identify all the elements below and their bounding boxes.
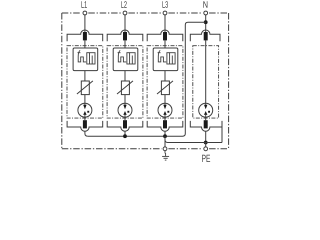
terminal label N — [203, 1, 207, 7]
spark-gap element (path L3): side dot — [167, 111, 169, 113]
terminal label L3 — [162, 1, 168, 8]
terminal label PE — [202, 155, 210, 162]
wire top contact to N-PE spark gap — [205, 40, 207, 103]
earth terminal circle on enclosure bottom edge — [163, 147, 167, 151]
PE bus wire with elbow from earth wire — [165, 140, 222, 143]
plug-in contact (top) of path L2: bracket with arc and solid contact bar — [107, 30, 143, 41]
spark-gap element (N-PE path): side dot — [208, 111, 210, 113]
wire junction to PE terminal — [205, 143, 207, 147]
earth/ground symbol below earth terminal — [164, 151, 166, 154]
varistor (path L3) diagonal stroke — [157, 81, 173, 94]
wire branch L3 bottom to bus — [164, 131, 166, 136]
wire spark-gap to bottom contact (L3) — [164, 117, 166, 120]
wire branch L1 bottom elbow onto varistor common bus — [85, 131, 88, 136]
junction node bus-L2 — [123, 134, 127, 138]
module dash-dot box around protection path L3 — [147, 46, 183, 118]
varistor (path L2) (rectangle) — [121, 81, 129, 95]
wire from terminal L3 down to top contact — [164, 15, 166, 33]
hatched block of indicator icon of path L1 — [87, 53, 95, 64]
spark-gap element (path L3): lower electrode arrow (pointing up) — [163, 111, 166, 115]
plug-in contact (top) of path N-PE: bracket with arc and solid contact bar — [190, 30, 220, 41]
spark-gap element (path L1): upper electrode arrow (pointing down) — [84, 103, 86, 105]
plug-in contact (top) of path L1: bracket with arc and solid contact bar — [67, 30, 103, 41]
waveform icon inside indicator box of path L2 — [118, 50, 126, 62]
module dash-dot box around N-PE spark gap path — [193, 46, 219, 118]
spark-gap element (N-PE path): circle — [199, 103, 213, 117]
varistor (path L3) (rectangle) — [161, 81, 169, 95]
wire varistor to spark-gap (L3) — [164, 95, 166, 104]
spark-gap element (path L2): circle — [118, 103, 132, 117]
terminal circle N — [204, 11, 208, 15]
module dash-dot box around protection path L2 — [107, 46, 143, 118]
terminal circle L1 — [83, 11, 87, 15]
spark-gap element (N-PE path): lower electrode arrow (pointing up) — [204, 111, 207, 115]
spark-gap element (path L3): circle — [158, 103, 172, 117]
wire indicator box to varistor (L1) — [84, 71, 86, 82]
status indicator / thermal disconnector monitoring box of path L1 — [73, 48, 98, 71]
status indicator / thermal disconnector monitoring box of path L3 — [153, 48, 178, 71]
terminal label L2 — [121, 1, 126, 7]
waveform icon inside indicator box of path L3 — [158, 50, 166, 62]
wire varistor to spark-gap (L1) — [84, 95, 86, 104]
spark-gap element (path L2): lower electrode arrow (pointing up) — [123, 111, 126, 115]
junction node on PE bus below N-PE path — [204, 141, 208, 145]
terminal label L1 — [81, 1, 86, 7]
wire contact to indicator box (L2) — [124, 40, 126, 48]
spark-gap element (path L1): side dot — [87, 111, 89, 113]
wire from bus junction (L3) down to earth terminal — [164, 136, 166, 147]
spark-gap element (path L2): upper electrode arrow (pointing down) — [124, 103, 126, 105]
wire branch L2 bottom to bus — [124, 131, 126, 136]
spark-gap element (path L1): circle — [78, 103, 92, 117]
plug-in contact (bottom) of path L3: bracket with arc and solid contact bar — [147, 121, 183, 131]
wire spark-gap to bottom contact (L1) — [84, 117, 86, 120]
wire indicator box to varistor (L3) — [164, 71, 166, 82]
enclosure boundary top edge — [62, 12, 229, 14]
PE terminal circle on enclosure bottom edge — [204, 147, 208, 151]
terminal circle L3 — [163, 11, 167, 15]
varistor (path L1) diagonal stroke — [77, 81, 93, 94]
enclosure boundary right edge — [228, 13, 230, 149]
plug-in contact (bottom) of path L1: bracket with arc and solid contact bar — [67, 121, 103, 131]
spark-gap element (N-PE path): upper electrode arrow (pointing down) — [205, 103, 207, 105]
varistor (path L1) (rectangle) — [81, 81, 89, 95]
wire bottom contact of N-PE path down to PE bus — [205, 131, 207, 142]
hatched block of indicator icon of path L3 — [167, 53, 175, 64]
terminal circle L2 — [123, 11, 127, 15]
spark-gap element (path L2): side dot — [127, 111, 129, 113]
enclosure boundary (dash-dot) left edge — [61, 13, 63, 149]
spark-gap element (path L3): upper electrode arrow (pointing down) — [164, 103, 166, 105]
plug-in contact (bottom) of path L2: bracket with arc and solid contact bar — [107, 121, 143, 131]
varistor (path L2) diagonal stroke — [117, 81, 133, 94]
spark-gap element (path L1): lower electrode arrow (pointing up) — [83, 111, 86, 115]
wire varistor to spark-gap (L2) — [124, 95, 126, 104]
wire from terminal L1 down to top contact — [84, 15, 86, 33]
varistor common bus horizontal wire — [88, 22, 206, 136]
wire spark-gap to bottom contact (L2) — [124, 117, 126, 120]
junction node on N wire — [204, 20, 208, 24]
plug-in contact (top) of path L3: bracket with arc and solid contact bar — [147, 30, 183, 41]
plug-in contact (bottom) of path N-PE: bracket with arc and solid contact bar — [190, 121, 222, 131]
wire from terminal N down to junction and top contact — [205, 15, 207, 33]
module dash-dot box around protection path L1 — [67, 46, 103, 118]
junction node bus-L3 — [163, 134, 167, 138]
wire from terminal L2 down to top contact — [124, 15, 126, 33]
wire N-PE spark gap to bottom contact — [205, 117, 207, 120]
waveform icon inside indicator box of path L1 — [78, 50, 86, 62]
hatched block of indicator icon of path L2 — [127, 53, 135, 64]
wire contact to indicator box (L1) — [84, 40, 86, 48]
wire indicator box to varistor (L2) — [124, 71, 126, 82]
wire contact to indicator box (L3) — [164, 40, 166, 48]
status indicator / thermal disconnector monitoring box of path L2 — [113, 48, 138, 71]
enclosure boundary bottom edge — [62, 148, 229, 150]
